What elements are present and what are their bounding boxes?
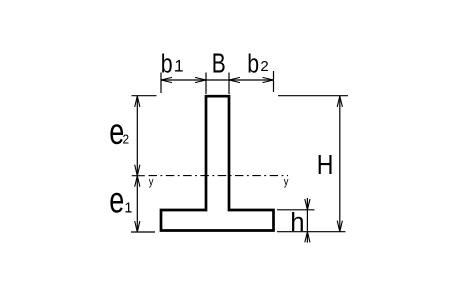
dimension line H: [339, 96, 341, 232]
svg-text:b: b: [161, 50, 173, 80]
svg-text:h: h: [290, 209, 304, 237]
label e2: [109, 111, 129, 152]
arrowheads H dimension: [337, 96, 342, 232]
centroid axis y-y: [132, 175, 288, 177]
dimension line b1 B b2: [161, 79, 274, 81]
extension lines left dimension: [131, 96, 157, 232]
label e1: [109, 179, 132, 220]
svg-text:e: e: [109, 179, 124, 220]
arrowheads top dimension: [161, 77, 274, 82]
arrowheads h dimension: [305, 199, 310, 242]
svg-text:1: 1: [124, 201, 132, 217]
label b2: [247, 50, 269, 80]
arrowheads left dimension: [135, 96, 140, 232]
extension line bottom (H and h): [277, 231, 346, 233]
extension line H top: [278, 95, 348, 97]
svg-text:1: 1: [174, 58, 183, 76]
svg-text:y: y: [284, 177, 289, 189]
svg-text:b: b: [247, 50, 259, 80]
dimension line h: [306, 198, 308, 243]
svg-text:y: y: [149, 177, 154, 189]
svg-text:H: H: [317, 150, 334, 180]
label b1: [161, 50, 184, 80]
extension lines top dimension: [161, 71, 274, 94]
T-section outline: [161, 96, 274, 230]
svg-text:2: 2: [260, 58, 268, 75]
svg-text:2: 2: [123, 132, 130, 146]
svg-text:B: B: [212, 49, 226, 79]
extension line h top: [277, 209, 315, 211]
dimension line e2 e1: [136, 96, 138, 232]
